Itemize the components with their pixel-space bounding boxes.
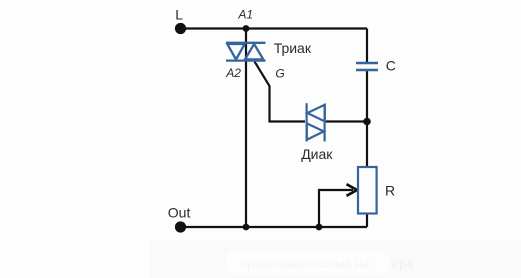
resistor R (potentiometer body) xyxy=(358,167,377,214)
junction dot wiper bottom xyxy=(316,224,323,231)
triac VS1 symbol xyxy=(226,43,266,61)
wire gate xyxy=(255,62,306,122)
svg-text:Out: Out xyxy=(168,204,191,220)
wire top L to corner xyxy=(181,27,368,29)
wiper arrowhead xyxy=(347,184,358,196)
svg-text:A1: A1 xyxy=(237,8,253,22)
junction dot triac bottom xyxy=(243,224,250,231)
svg-text:Триак: Триак xyxy=(274,40,312,56)
svg-text:epa: epa xyxy=(392,256,414,271)
terminal Out xyxy=(175,221,186,232)
junction dot diac right xyxy=(363,118,371,126)
wire R bottom lead xyxy=(366,214,368,228)
svg-text:R: R xyxy=(385,183,395,199)
watermark band xyxy=(150,240,521,278)
svg-text:C: C xyxy=(386,57,396,73)
wire bottom Out xyxy=(181,226,368,228)
svg-text:правильная схема на: правильная схема на xyxy=(240,256,370,271)
capacitor C symbol xyxy=(356,63,378,70)
terminal L xyxy=(175,23,186,34)
svg-text:A2: A2 xyxy=(225,66,241,80)
svg-text:G: G xyxy=(275,67,284,81)
wire cap to junction xyxy=(366,71,368,122)
svg-text:L: L xyxy=(175,6,183,22)
wire junction to R top xyxy=(366,122,368,168)
wire right vertical upper xyxy=(366,29,368,63)
wire diac to junction xyxy=(326,120,367,122)
watermark pill xyxy=(225,250,390,274)
svg-text:Диак: Диак xyxy=(301,146,333,162)
wire triac vertical xyxy=(245,29,247,228)
wire wiper xyxy=(319,190,353,227)
node A1 junction dot xyxy=(243,25,250,32)
diac VD1 symbol xyxy=(307,103,325,141)
